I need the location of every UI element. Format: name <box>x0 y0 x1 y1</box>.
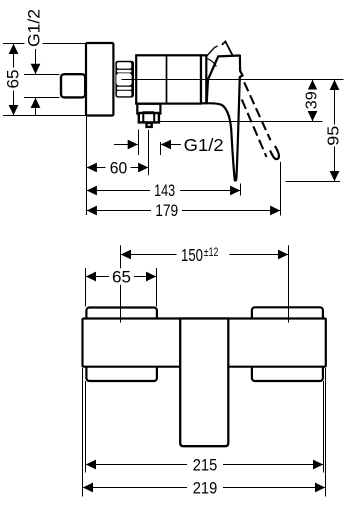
svg-text:219: 219 <box>193 479 218 498</box>
dimension 65 (escutcheon height, side view) <box>4 44 23 116</box>
dimension 65 (escutcheon, front view) <box>86 268 157 307</box>
dimension 60 <box>87 159 149 178</box>
dimension 219 <box>83 479 326 498</box>
extension lines for 219 <box>82 368 84 497</box>
svg-text:39: 39 <box>303 91 320 109</box>
escutcheon (side view) <box>86 43 113 116</box>
outlet centerline extension <box>148 130 150 175</box>
outlet hex nut <box>139 111 159 122</box>
dimension G1/2 (outlet thread callout) <box>114 130 224 156</box>
extension line: escutcheon top edge level <box>3 43 86 45</box>
left escutcheon (front view) <box>86 308 156 382</box>
lever open position (dashed) upper edge <box>244 82 270 140</box>
mixer body bar (front view) <box>83 319 326 367</box>
svg-text:150: 150 <box>181 245 203 265</box>
left extension line (wall face) <box>86 117 88 216</box>
svg-text:179: 179 <box>155 201 178 220</box>
lever phantom stroke (raised position, left edge) <box>207 46 218 56</box>
dimension 150 +/-12 (supply connection centers) <box>121 245 289 323</box>
svg-text:65: 65 <box>112 268 131 287</box>
axis line through body <box>122 79 344 81</box>
lever open position (dashed) lower edge <box>242 100 267 158</box>
lever hub arc <box>207 59 217 67</box>
extension line: escutcheon bottom edge level <box>3 115 86 117</box>
wall union connector (side view) <box>61 74 85 97</box>
extension line (open lever tip level) <box>286 181 341 183</box>
cartridge collar <box>201 55 206 103</box>
lever handle (closed position, side view) <box>207 56 243 181</box>
hex union nut (side view) <box>115 61 134 98</box>
extension lines for 215 <box>85 381 87 473</box>
svg-text:65: 65 <box>4 70 23 89</box>
outlet tip <box>147 123 152 127</box>
svg-text:G1/2: G1/2 <box>184 135 224 155</box>
svg-text:±12: ±12 <box>204 245 219 259</box>
connection centerline marks <box>120 308 122 323</box>
dimension G1/2 (wall union thread callout) <box>24 6 60 116</box>
lever phantom stroke (raised position, tip) <box>222 42 233 56</box>
dimension 143 <box>87 181 241 200</box>
dimension 179 <box>87 201 281 220</box>
svg-text:G1/2: G1/2 <box>24 9 43 47</box>
svg-text:215: 215 <box>193 456 218 475</box>
dimension 215 <box>86 456 324 475</box>
svg-text:95: 95 <box>325 126 342 146</box>
right escutcheon (front view) <box>252 307 323 381</box>
extension from closed lever tip <box>240 184 242 196</box>
dimension 95 <box>325 80 342 182</box>
shower hose outlet step <box>137 104 160 114</box>
dimension 39 <box>303 80 320 122</box>
svg-text:143: 143 <box>154 181 175 200</box>
extension line (39 lower reference) <box>159 121 322 123</box>
svg-text:60: 60 <box>110 159 128 178</box>
mixer body (side view) <box>136 55 201 103</box>
body parting line <box>166 55 168 103</box>
extension from open lever tip <box>280 162 282 216</box>
lever open position tip <box>270 146 279 159</box>
lever handle (front view) <box>180 319 228 447</box>
